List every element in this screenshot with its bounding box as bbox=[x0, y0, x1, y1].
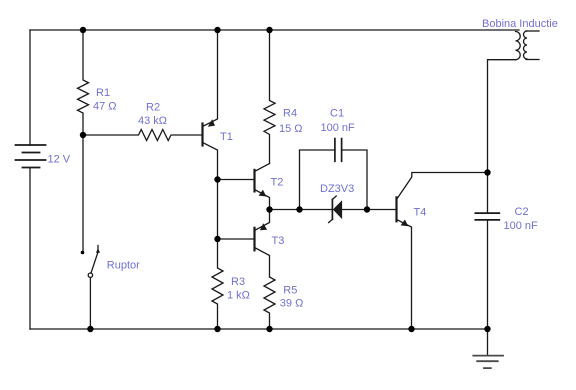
svg-text:T4: T4 bbox=[414, 207, 427, 219]
wire bottom rail bbox=[30, 328, 488, 330]
ruptor fixed contact bbox=[81, 251, 85, 255]
svg-text:R1: R1 bbox=[96, 87, 110, 99]
node T3 base bbox=[214, 236, 220, 242]
wire top rail bbox=[30, 29, 519, 31]
transistor T1 bbox=[203, 30, 218, 180]
node top rail R1 bbox=[80, 27, 86, 33]
zener diode DZ3V3 bbox=[329, 196, 343, 223]
svg-text:R3: R3 bbox=[231, 276, 245, 288]
node A R1-R2 bbox=[80, 132, 86, 138]
svg-text:C2: C2 bbox=[515, 206, 529, 218]
transistor T4 bbox=[397, 173, 488, 330]
svg-text:R4: R4 bbox=[283, 108, 297, 120]
wire battery bottom to rail bbox=[29, 168, 31, 330]
wire T3 base bbox=[218, 238, 255, 240]
svg-text:47 Ω: 47 Ω bbox=[93, 101, 117, 113]
wire primary bottom lead bbox=[488, 60, 516, 173]
node C1 right bbox=[364, 206, 370, 212]
svg-text:Ruptor: Ruptor bbox=[107, 260, 140, 272]
node top rail T1 bbox=[214, 27, 220, 33]
node C1 left bbox=[296, 206, 302, 212]
svg-text:T3: T3 bbox=[272, 235, 285, 247]
node rail R3 bbox=[214, 326, 220, 332]
svg-text:39 Ω: 39 Ω bbox=[280, 298, 304, 310]
capacitor C1 bbox=[300, 139, 368, 210]
node T4 collector coil bbox=[484, 169, 490, 175]
transistor T2 bbox=[255, 164, 270, 210]
ground bbox=[473, 329, 503, 368]
node rail R5 bbox=[266, 326, 272, 332]
resistor R1 bbox=[78, 30, 89, 135]
node rail ground bbox=[484, 326, 490, 332]
svg-text:T1: T1 bbox=[220, 131, 233, 143]
node emitters bbox=[266, 206, 272, 212]
resistor R5 bbox=[264, 277, 275, 329]
transistor T3 bbox=[255, 210, 270, 278]
svg-text:12 V: 12 V bbox=[48, 154, 71, 166]
ruptor switch bbox=[88, 246, 100, 330]
svg-text:DZ3V3: DZ3V3 bbox=[320, 183, 354, 195]
svg-text:1 kΩ: 1 kΩ bbox=[227, 290, 250, 302]
node top rail R4 bbox=[266, 27, 272, 33]
svg-text:Bobina Inductie: Bobina Inductie bbox=[482, 18, 558, 30]
wire zener to T4 base bbox=[342, 209, 397, 211]
node rail T4 emitter bbox=[408, 326, 414, 332]
resistor R3 bbox=[212, 239, 223, 329]
wire node A to ruptor contact bbox=[82, 135, 84, 251]
wire T2 base bbox=[218, 179, 255, 181]
svg-text:R5: R5 bbox=[283, 285, 297, 297]
svg-text:100 nF: 100 nF bbox=[321, 122, 356, 134]
resistor R2 bbox=[83, 130, 203, 141]
svg-text:43 kΩ: 43 kΩ bbox=[138, 115, 167, 127]
svg-text:100 nF: 100 nF bbox=[504, 220, 539, 232]
wire secondary top lead bbox=[526, 30, 539, 32]
inductor primary winding bbox=[516, 32, 521, 60]
wire T1 emitter column to T3 base node bbox=[217, 180, 219, 240]
svg-text:C1: C1 bbox=[330, 108, 344, 120]
capacitor C2 bbox=[475, 173, 499, 330]
resistor R4 bbox=[264, 30, 275, 164]
node rail ruptor bbox=[87, 326, 93, 332]
battery B1 12V bbox=[16, 145, 46, 168]
wire emitter node to zener bbox=[270, 209, 333, 211]
node T2 base bbox=[214, 176, 220, 182]
svg-text:15 Ω: 15 Ω bbox=[279, 123, 303, 135]
wire left vertical to battery bbox=[29, 30, 31, 145]
wire secondary bottom lead bbox=[526, 59, 539, 61]
inductor secondary winding bbox=[524, 31, 527, 59]
svg-text:R2: R2 bbox=[146, 102, 160, 114]
svg-text:T2: T2 bbox=[271, 177, 284, 189]
